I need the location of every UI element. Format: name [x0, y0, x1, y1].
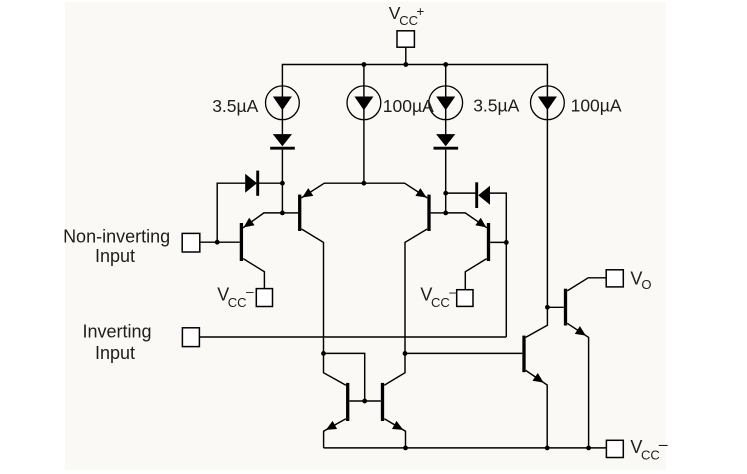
svg-text:3.5µA: 3.5µA: [473, 96, 519, 116]
transistor Q8 collector: [567, 278, 606, 291]
junction node A: [280, 211, 285, 216]
wire Q3-Q4 base tie: [349, 400, 380, 402]
terminal box V_CC- left: [256, 289, 272, 307]
transistor Q3 emitter: [324, 419, 346, 448]
svg-text:+: +: [416, 4, 424, 19]
junction mirror node right: [403, 351, 408, 356]
junction Q6 base-inverting column: [504, 240, 509, 245]
transistor Q5 base wire: [431, 212, 446, 214]
junction Q8 emitter-rail: [586, 446, 591, 451]
svg-text:3.5µA: 3.5µA: [212, 96, 258, 116]
svg-text:–: –: [449, 284, 457, 299]
junction Q8 base tap: [545, 305, 550, 310]
wire base tie to Q3 collector node: [324, 353, 365, 401]
transistor Q2 emitter arrow: [302, 188, 313, 197]
svg-text:CC: CC: [431, 295, 450, 310]
terminal box V_CC- bottom: [606, 440, 623, 457]
transistor Q5 emitter arrow: [415, 188, 426, 197]
transistor Q7 bar: [522, 336, 525, 373]
junction node B: [443, 211, 448, 216]
transistor Q6 collector: [465, 259, 486, 290]
transistor Q3 bar: [346, 383, 349, 421]
wire D3 cathode to node A: [281, 183, 283, 213]
svg-text:Inverting: Inverting: [82, 322, 151, 342]
terminal box non-inverting input: [182, 233, 200, 252]
junction rail-I3: [443, 62, 448, 67]
junction V_CC+ on rail: [403, 62, 408, 67]
wire V_CC- bottom rail: [324, 447, 607, 449]
transistor Q8 bar: [564, 289, 567, 326]
transistor Q4 bar: [381, 383, 384, 421]
junction rail-I2: [362, 62, 367, 67]
wire V_CC+ positive supply rail: [282, 64, 547, 66]
svg-text:CC: CC: [399, 13, 418, 28]
transistor Q2 collector: [302, 229, 324, 353]
current source I4 100uA: [531, 86, 565, 120]
transistor Q6 base wire: [490, 241, 506, 243]
transistor Q1 base wire: [200, 241, 240, 243]
wire V_CC+ terminal to rail: [405, 47, 407, 64]
wire Q7 base: [405, 352, 522, 354]
junction D1-D3: [280, 181, 285, 186]
transistor Q8 emitter: [567, 323, 588, 448]
current source I3 3.5uA: [429, 86, 463, 120]
wire I4 output down to Q7 collector: [546, 64, 548, 325]
diode D3: [273, 134, 292, 146]
wire D4 cathode to node B: [445, 193, 447, 213]
transistor Q7 collector: [526, 325, 548, 338]
transistor Q4 collector: [384, 353, 405, 385]
terminal box V_CC+: [397, 31, 414, 47]
junction Q7 emitter-rail: [545, 446, 550, 451]
svg-text:Non-inverting: Non-inverting: [63, 226, 170, 246]
transistor Q3 collector: [324, 353, 346, 385]
junction D2-D4: [443, 191, 448, 196]
current source I1 3.5uA: [266, 86, 300, 120]
terminal box inverting input: [182, 328, 199, 347]
diode D1: [245, 174, 257, 193]
diode D2: [475, 182, 478, 208]
wire D2 cathode from vertical: [446, 192, 476, 194]
transistor Q1 emitter: [243, 213, 282, 228]
terminal box V_CC- mid: [457, 290, 473, 307]
svg-text:100µA: 100µA: [571, 96, 622, 116]
svg-text:Input: Input: [95, 246, 135, 266]
wire stub to current source I3: [445, 64, 447, 135]
junction base tie: [362, 399, 367, 404]
wire D1 cathode to vertical: [259, 182, 283, 184]
transistor Q1 bar: [240, 223, 243, 261]
transistor Q5 collector: [405, 229, 427, 353]
junction non-inverting input: [215, 240, 220, 245]
transistor Q5 bar: [427, 195, 430, 231]
wire I1 output to diode D3: [281, 64, 283, 135]
current source I2 100uA: [347, 86, 381, 120]
wire inverting input: [199, 336, 506, 338]
transistor Q7 emitter: [526, 370, 548, 448]
junction I2-emitter rail: [362, 181, 367, 186]
svg-text:CC: CC: [641, 447, 660, 462]
svg-text:Input: Input: [95, 343, 135, 363]
transistor Q2 base wire: [282, 212, 298, 214]
svg-text:100µA: 100µA: [383, 96, 434, 116]
transistor Q4 emitter: [384, 419, 405, 448]
transistor Q1 collector: [243, 259, 264, 289]
terminal box V_O: [606, 270, 623, 287]
junction mirror node left: [321, 351, 326, 356]
transistor Q6 emitter: [446, 213, 487, 228]
diode D4: [436, 134, 455, 146]
svg-text:–: –: [659, 437, 668, 454]
svg-text:–: –: [246, 284, 254, 299]
wire D1 anode from non-inverting node: [217, 183, 245, 242]
junction Q4 emitter-rail: [403, 446, 408, 451]
wire Q2/Q5 emitter rail: [301, 183, 427, 198]
transistor Q6 bar: [487, 223, 490, 261]
wire stub to current source I2: [363, 64, 365, 183]
wire Q8 base: [547, 306, 563, 308]
svg-text:O: O: [641, 277, 651, 292]
wire D2 anode to inverting column: [490, 193, 506, 337]
transistor Q2 bar: [298, 195, 301, 231]
svg-text:CC: CC: [228, 295, 247, 310]
